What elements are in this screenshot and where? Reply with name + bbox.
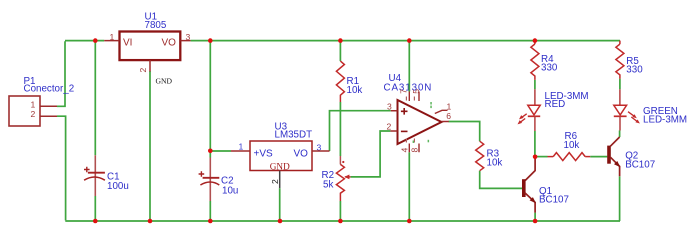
transistor Q1 BC107 [522,157,569,213]
svg-text:7: 7 [398,89,408,94]
junction bottom rail R2 [338,219,343,224]
svg-text:2: 2 [31,109,36,119]
junction bottom rail U1 GND [148,219,153,224]
junction top rail C2 [208,38,213,43]
junction bottom rail Q1 emitter [533,219,538,224]
svg-text:VI: VI [123,38,132,49]
svg-text:1: 1 [447,101,452,111]
svg-text:1: 1 [239,142,244,152]
wire Q1 collector node to R6 [535,156,547,158]
wire top rail [65,40,620,42]
svg-text:2: 2 [138,68,148,73]
transistor Q2 BC107 [607,137,655,176]
svg-text:10k: 10k [487,157,503,168]
wire P1 pin2 to bottom rail [57,116,66,220]
svg-text:4: 4 [399,148,409,153]
svg-text:7805: 7805 [145,20,167,31]
op-amp U4 CA3130N [384,73,452,152]
svg-text:5: 5 [411,89,421,94]
svg-text:100u: 100u [107,181,129,192]
svg-text:10u: 10u [222,186,238,197]
wire C2 supply branch [209,41,211,221]
resistor R1 10k [336,61,362,102]
svg-text:VO: VO [162,38,177,49]
svg-text:2: 2 [387,121,392,131]
svg-text:+VS: +VS [254,149,274,160]
wire U4 pin2 to R2 wiper [351,131,391,177]
junction top rail R4 [533,38,538,43]
wire bottom rail [65,220,620,222]
wire R3 to Q1 base [480,171,523,189]
svg-text:GND: GND [270,161,290,171]
trimmer R2 5k [322,156,351,201]
GND net label under U1 [156,77,173,86]
svg-text:5k: 5k [323,180,333,191]
junction bottom rail C2 [208,219,213,224]
junction Q1 collector node [533,155,538,160]
capacitor C2 10u [199,158,239,202]
wire U4 pin7 supply [408,41,410,92]
svg-text:BC107: BC107 [625,160,655,171]
svg-text:LM35DT: LM35DT [275,130,313,141]
wire U3 VO to U4 pin3 [330,111,391,151]
wire U4 pin4 to bottom rail [408,152,410,221]
temperature sensor U3 LM35DT [231,121,330,221]
LED D1 red LED-3MM [518,89,589,131]
voltage regulator U1 7805 [104,12,190,73]
wire R6 to Q2 base [590,156,607,158]
wire U4 output to R3 [449,122,480,142]
wire U1 GND to bottom rail [149,71,151,221]
wire R4 to LED anode [534,80,536,89]
junction bottom rail C1 [93,219,98,224]
junction bottom rail U3 GND [278,219,283,224]
svg-text:VO: VO [294,149,309,160]
resistor R5 330 [616,41,643,79]
wire LED cathode to Q1 collector [534,131,536,157]
svg-text:BC107: BC107 [539,194,569,205]
resistor R4 330 [531,41,558,80]
svg-text:Conector_2: Conector_2 [24,84,75,95]
svg-text:2: 2 [270,179,280,184]
wire R5 to green LED anode [619,79,621,90]
resistor R3 10k [476,141,503,171]
wire P1 pin1 to top rail [57,41,65,106]
wire Q2 emitter to bottom rail [619,176,621,221]
wire Q1 emitter to bottom rail [534,213,536,221]
junction C2 node [208,149,213,154]
junction top rail U4 supply [407,38,412,43]
svg-text:10k: 10k [564,140,580,151]
junction bottom rail U4 pin4 [407,219,412,224]
wire green LED cathode to Q2 collector [619,131,621,138]
wire R1 branch [339,41,341,221]
LED D2 green LED-3MM [614,89,687,130]
svg-text:1: 1 [31,100,36,110]
svg-text:GND: GND [156,77,173,86]
junction top rail C1 [93,38,98,43]
connector P1 [9,76,74,126]
capacitor C1 100u [84,155,129,196]
svg-text:LED-3MM: LED-3MM [643,114,687,125]
svg-text:330: 330 [541,62,558,73]
svg-text:6: 6 [446,111,451,121]
svg-text:8: 8 [410,148,420,153]
svg-text:330: 330 [626,64,643,75]
resistor R6 10k [548,131,591,161]
svg-text:10k: 10k [347,85,363,96]
wire C1 branch [94,41,96,221]
wire C2 node to U3 +VS [210,150,231,152]
junction top rail R1 [338,38,343,43]
svg-text:RED: RED [545,99,566,110]
